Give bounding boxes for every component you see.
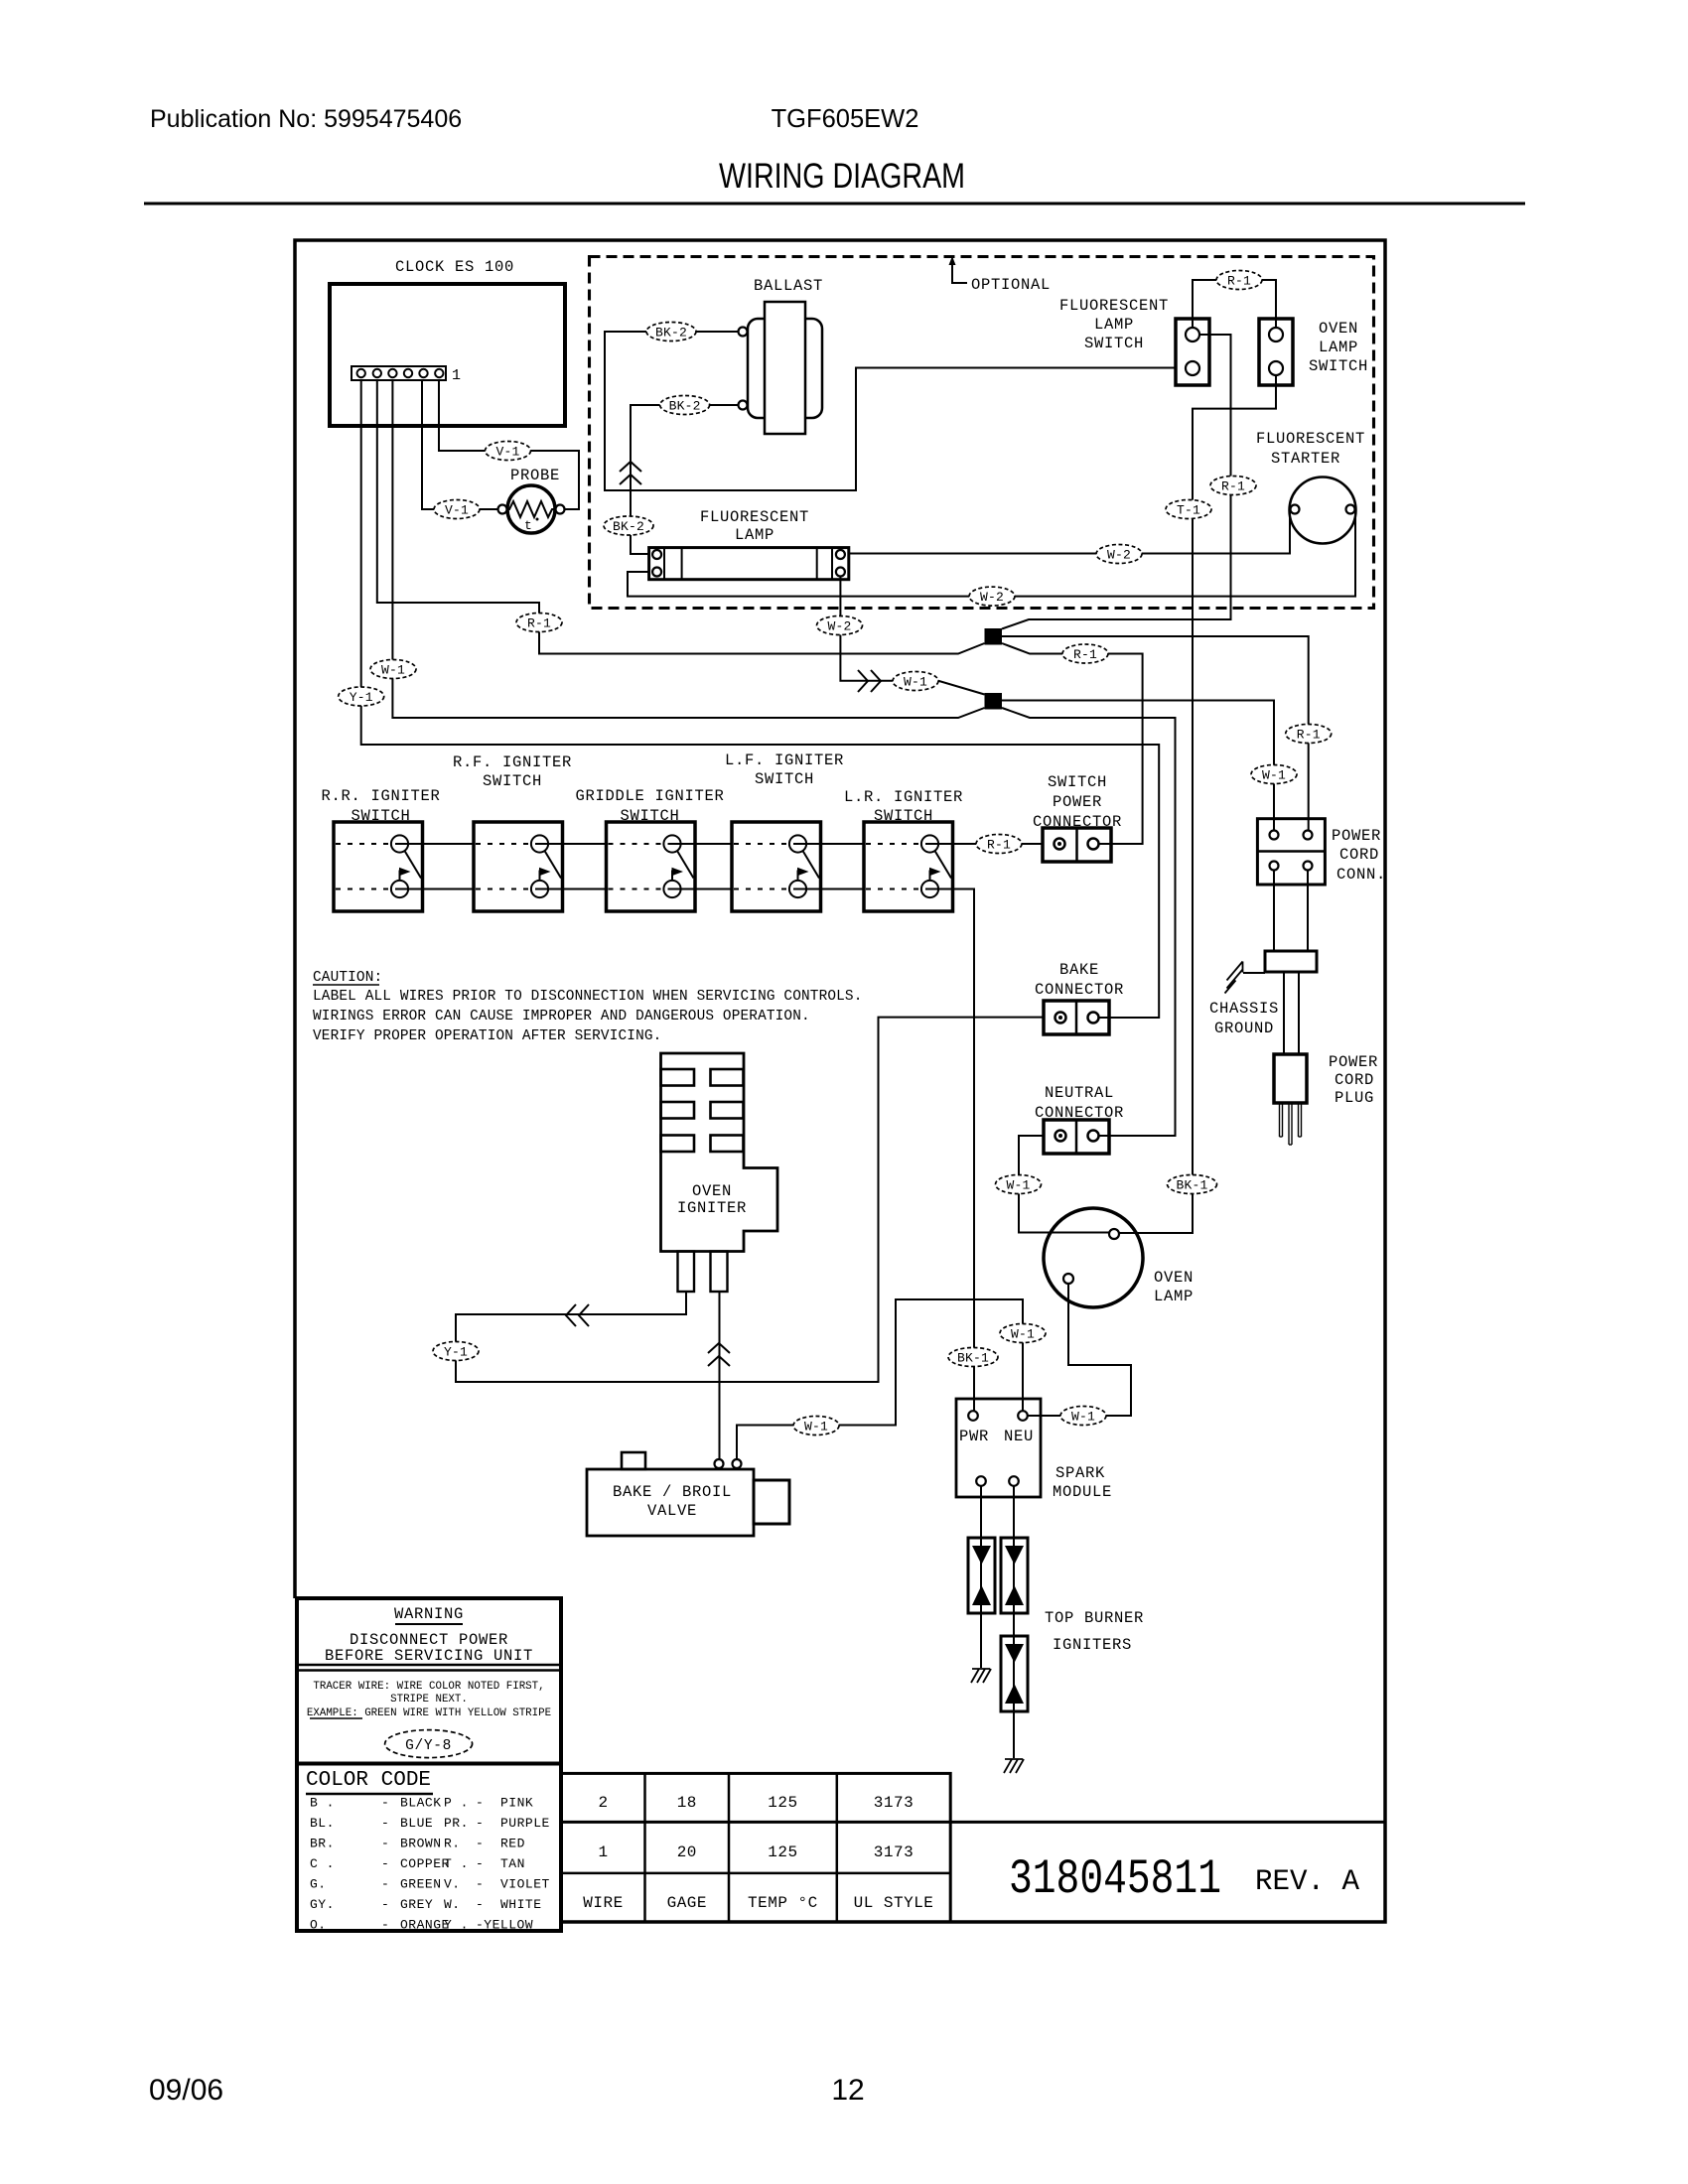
svg-text:V.: V.: [444, 1877, 461, 1892]
svg-text:BLUE: BLUE: [400, 1816, 433, 1831]
svg-text:TGF605EW2: TGF605EW2: [772, 105, 919, 133]
svg-text:B .: B .: [310, 1796, 335, 1811]
svg-text:PINK: PINK: [500, 1796, 533, 1811]
svg-text:VIOLET: VIOLET: [500, 1877, 550, 1892]
svg-text:PR.: PR.: [444, 1816, 469, 1831]
svg-text:W-1: W-1: [904, 675, 927, 690]
svg-text:NEUTRAL: NEUTRAL: [1045, 1084, 1114, 1102]
svg-text:IGNITER: IGNITER: [677, 1199, 747, 1217]
svg-text:W-2: W-2: [1107, 548, 1131, 563]
svg-text:GRIDDLE IGNITER: GRIDDLE IGNITER: [575, 787, 724, 805]
svg-text:R.R. IGNITER: R.R. IGNITER: [321, 787, 440, 805]
svg-text:SWITCH: SWITCH: [1084, 335, 1144, 352]
svg-text:125: 125: [768, 1843, 797, 1861]
svg-text:TRACER WIRE: WIRE COLOR NOTED: TRACER WIRE: WIRE COLOR NOTED FIRST,: [313, 1681, 544, 1693]
svg-text:-: -: [381, 1837, 390, 1851]
svg-text:FLUORESCENT: FLUORESCENT: [1256, 430, 1365, 448]
svg-text:ORANGE: ORANGE: [400, 1918, 450, 1933]
svg-text:O.: O.: [310, 1918, 327, 1933]
svg-text:SWITCH: SWITCH: [620, 807, 679, 825]
svg-text:18: 18: [677, 1794, 697, 1812]
svg-text:COPPER: COPPER: [400, 1856, 450, 1871]
svg-text:PURPLE: PURPLE: [500, 1816, 550, 1831]
svg-text:CONNECTOR: CONNECTOR: [1035, 981, 1124, 999]
svg-text:BK-2: BK-2: [613, 519, 644, 534]
svg-text:-: -: [381, 1877, 390, 1892]
svg-text:Publication No: 5995475406: Publication No: 5995475406: [150, 105, 462, 133]
svg-text:L.R. IGNITER: L.R. IGNITER: [844, 788, 963, 806]
svg-text:WHITE: WHITE: [500, 1897, 542, 1912]
svg-text:3173: 3173: [874, 1794, 914, 1812]
svg-text:BR.: BR.: [310, 1837, 335, 1851]
svg-text:GREY: GREY: [400, 1897, 433, 1912]
svg-text:VALVE: VALVE: [647, 1502, 697, 1520]
svg-text:R-1: R-1: [1297, 728, 1321, 743]
svg-text:CHASSIS: CHASSIS: [1209, 1000, 1279, 1018]
svg-text:SWITCH: SWITCH: [351, 807, 410, 825]
svg-text:OVEN: OVEN: [692, 1182, 732, 1200]
svg-text:POWER: POWER: [1329, 1053, 1378, 1071]
svg-text:BK-2: BK-2: [655, 326, 687, 341]
svg-text:G.: G.: [310, 1877, 327, 1892]
svg-text:POWER: POWER: [1332, 827, 1381, 845]
svg-text:PROBE: PROBE: [510, 467, 560, 484]
svg-text:W-2: W-2: [827, 619, 851, 634]
svg-text:BK-1: BK-1: [957, 1351, 989, 1366]
svg-text:BK-1: BK-1: [1176, 1178, 1207, 1193]
svg-text:BLACK: BLACK: [400, 1796, 442, 1811]
svg-text:BL.: BL.: [310, 1816, 335, 1831]
svg-text:TOP BURNER: TOP BURNER: [1045, 1609, 1144, 1627]
svg-text:-: -: [476, 1856, 485, 1871]
svg-text:SWITCH: SWITCH: [1048, 773, 1107, 791]
svg-text:R-1: R-1: [1227, 274, 1251, 289]
svg-text:CLOCK ES 100: CLOCK ES 100: [395, 258, 514, 276]
svg-text:WIRE: WIRE: [583, 1894, 623, 1912]
svg-text:W-1: W-1: [804, 1420, 828, 1434]
svg-text:R-1: R-1: [1073, 647, 1097, 662]
svg-text:CONN.: CONN.: [1336, 866, 1386, 884]
svg-text:3173: 3173: [874, 1843, 914, 1861]
svg-text:CORD: CORD: [1335, 1071, 1374, 1089]
svg-text:R-1: R-1: [987, 838, 1011, 853]
svg-text:STARTER: STARTER: [1271, 450, 1340, 468]
svg-text:-YELLOW: -YELLOW: [476, 1918, 533, 1933]
svg-text:12: 12: [831, 2074, 864, 2107]
svg-text:2: 2: [598, 1794, 608, 1812]
svg-text:L.F. IGNITER: L.F. IGNITER: [725, 751, 844, 769]
svg-text:SWITCH: SWITCH: [874, 807, 933, 825]
svg-text:Y .: Y .: [444, 1918, 469, 1933]
svg-text:SWITCH: SWITCH: [1309, 357, 1368, 375]
svg-text:STRIPE NEXT.: STRIPE NEXT.: [390, 1694, 468, 1706]
svg-text:-: -: [476, 1837, 485, 1851]
svg-text:LAMP: LAMP: [1319, 339, 1358, 356]
svg-text:-: -: [381, 1816, 390, 1831]
svg-text:OVEN: OVEN: [1154, 1269, 1194, 1287]
svg-text:WIRINGS ERROR CAN CAUSE IMPROP: WIRINGS ERROR CAN CAUSE IMPROPER AND DAN…: [313, 1009, 810, 1024]
svg-text:Y-1: Y-1: [350, 690, 373, 705]
svg-text:LAMP: LAMP: [735, 526, 774, 544]
svg-text:C .: C .: [310, 1856, 335, 1871]
svg-text:LAMP: LAMP: [1154, 1288, 1194, 1305]
svg-text:SWITCH: SWITCH: [755, 770, 814, 788]
svg-text:FLUORESCENT: FLUORESCENT: [700, 508, 809, 526]
svg-text:SWITCH: SWITCH: [483, 772, 542, 790]
svg-text:W.: W.: [444, 1897, 461, 1912]
svg-text:OPTIONAL: OPTIONAL: [971, 276, 1051, 294]
svg-text:TAN: TAN: [500, 1856, 525, 1871]
svg-text:GAGE: GAGE: [667, 1894, 707, 1912]
svg-text:318045811: 318045811: [1009, 1851, 1221, 1907]
svg-text:V-1: V-1: [495, 445, 519, 460]
svg-text:BROWN: BROWN: [400, 1837, 442, 1851]
svg-text:REV. A: REV. A: [1255, 1865, 1359, 1899]
svg-text:-: -: [381, 1796, 390, 1811]
svg-text:W-1: W-1: [381, 663, 405, 678]
svg-text:20: 20: [677, 1843, 697, 1861]
svg-text:1: 1: [452, 367, 462, 384]
svg-text:-: -: [476, 1897, 485, 1912]
svg-text:BEFORE SERVICING UNIT: BEFORE SERVICING UNIT: [325, 1647, 533, 1665]
svg-text:EXAMPLE: GREEN WIRE WITH YELLO: EXAMPLE: GREEN WIRE WITH YELLOW STRIPE: [307, 1707, 551, 1719]
svg-text:GY.: GY.: [310, 1897, 335, 1912]
svg-text:T .: T .: [444, 1856, 469, 1871]
svg-text:LABEL ALL WIRES PRIOR TO DISCO: LABEL ALL WIRES PRIOR TO DISCONNECTION W…: [313, 989, 863, 1005]
svg-text:CORD: CORD: [1339, 846, 1379, 864]
svg-text:G/Y-8: G/Y-8: [405, 1738, 452, 1754]
svg-text:R.F. IGNITER: R.F. IGNITER: [453, 753, 572, 771]
svg-text:-: -: [381, 1918, 390, 1933]
svg-text:VERIFY PROPER OPERATION AFTER: VERIFY PROPER OPERATION AFTER SERVICING.: [313, 1028, 661, 1044]
svg-text:T-1: T-1: [1177, 503, 1200, 518]
svg-text:Y-1: Y-1: [444, 1345, 468, 1360]
svg-text:W-1: W-1: [1262, 768, 1286, 783]
svg-text:WIRING DIAGRAM: WIRING DIAGRAM: [719, 157, 965, 196]
svg-text:BALLAST: BALLAST: [754, 277, 823, 295]
svg-text:BAKE: BAKE: [1059, 961, 1099, 979]
svg-text:-: -: [476, 1816, 485, 1831]
svg-text:09/06: 09/06: [149, 2074, 223, 2107]
svg-text:COLOR CODE: COLOR CODE: [306, 1769, 431, 1792]
svg-text:t: t: [524, 518, 533, 533]
svg-text:PLUG: PLUG: [1335, 1089, 1374, 1107]
svg-text:FLUORESCENT: FLUORESCENT: [1059, 297, 1169, 315]
svg-text:TEMP °C: TEMP °C: [748, 1894, 818, 1912]
svg-text:GROUND: GROUND: [1214, 1020, 1274, 1037]
svg-text:W-2: W-2: [980, 590, 1004, 605]
svg-text:BK-2: BK-2: [669, 399, 701, 414]
svg-text:R-1: R-1: [527, 616, 551, 631]
svg-text:WARNING: WARNING: [394, 1605, 464, 1623]
svg-text:-: -: [476, 1877, 485, 1892]
svg-text:POWER: POWER: [1053, 793, 1102, 811]
svg-text:NEU: NEU: [1004, 1428, 1034, 1445]
svg-text:W-1: W-1: [1011, 1327, 1035, 1342]
svg-text:SPARK: SPARK: [1055, 1464, 1105, 1482]
svg-text:P .: P .: [444, 1796, 469, 1811]
svg-text:V-1: V-1: [445, 503, 469, 518]
svg-text:-: -: [476, 1796, 485, 1811]
svg-text:125: 125: [768, 1794, 797, 1812]
svg-text:1: 1: [598, 1843, 608, 1861]
svg-text:GREEN: GREEN: [400, 1877, 442, 1892]
svg-text:BAKE / BROIL: BAKE / BROIL: [613, 1483, 732, 1501]
svg-text:PWR: PWR: [959, 1428, 989, 1445]
svg-text:-: -: [381, 1856, 390, 1871]
svg-text:IGNITERS: IGNITERS: [1053, 1636, 1132, 1654]
svg-text:R.: R.: [444, 1837, 461, 1851]
svg-text:CAUTION:: CAUTION:: [313, 970, 382, 986]
svg-text:R-1: R-1: [1221, 479, 1245, 494]
svg-text:-: -: [381, 1897, 390, 1912]
svg-text:RED: RED: [500, 1837, 525, 1851]
svg-text:OVEN: OVEN: [1319, 320, 1358, 338]
svg-text:UL STYLE: UL STYLE: [854, 1894, 934, 1912]
svg-text:W-1: W-1: [1071, 1410, 1095, 1425]
svg-text:W-1: W-1: [1006, 1178, 1030, 1193]
svg-text:LAMP: LAMP: [1094, 316, 1134, 334]
svg-text:MODULE: MODULE: [1053, 1483, 1112, 1501]
